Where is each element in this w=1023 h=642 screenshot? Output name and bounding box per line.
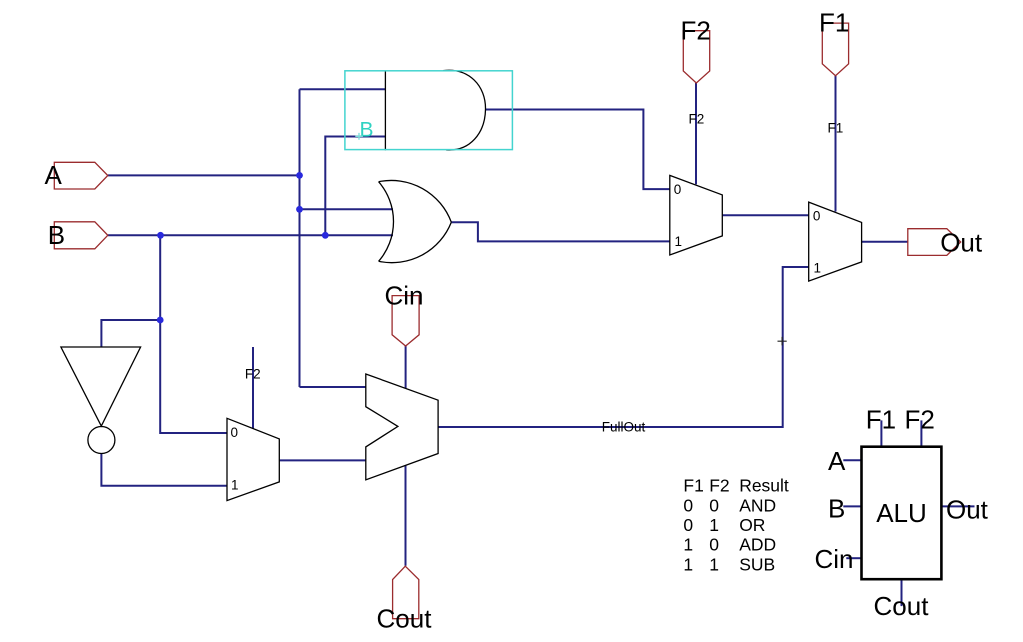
- svg-text:B: B: [828, 494, 845, 524]
- svg-text:A: A: [828, 446, 846, 476]
- NOT gate U3: [61, 347, 141, 426]
- wire adder carry to Cout pin: [405, 465, 407, 565]
- wire branch to NOT gate input: [101, 320, 160, 347]
- svg-text:F1: F1: [828, 121, 844, 136]
- svg-text:F1: F1: [819, 8, 849, 38]
- wire ALU label A stub: [843, 459, 861, 461]
- OR gate U2: [379, 180, 452, 262]
- svg-text:0: 0: [709, 495, 719, 515]
- svg-text:F1: F1: [683, 476, 703, 496]
- svg-text:0: 0: [813, 208, 821, 223]
- svg-text:F2: F2: [681, 15, 711, 45]
- input pin A: [54, 162, 108, 189]
- svg-text:F1: F1: [866, 405, 896, 435]
- svg-text:0: 0: [683, 515, 693, 535]
- svg-text:F2: F2: [905, 405, 935, 435]
- wire ALU label F1 stub: [880, 420, 882, 447]
- wire adder FullOut to MUX2 input 1: [438, 267, 809, 427]
- output pin Cout: [393, 566, 419, 619]
- svg-text:1: 1: [709, 515, 719, 535]
- wire A bus to adder input A: [300, 386, 366, 388]
- anchor cross on FullOut net: [778, 337, 787, 346]
- svg-text:ALU: ALU: [876, 498, 927, 528]
- svg-text:1: 1: [814, 261, 822, 276]
- multiplexer MUX2: [809, 202, 862, 281]
- junction NOT branch: [157, 317, 164, 324]
- wire MUX2 output to Out pin: [862, 241, 908, 243]
- svg-text:Cout: Cout: [377, 604, 433, 634]
- svg-text:Out: Out: [946, 495, 989, 525]
- svg-text:1: 1: [675, 234, 683, 249]
- wire ALU label Out stub: [941, 505, 974, 507]
- svg-text:F2: F2: [689, 112, 705, 127]
- wire ALU label B stub: [843, 505, 861, 507]
- wire A to AND gate top input: [300, 88, 386, 90]
- svg-text:Result: Result: [739, 476, 789, 496]
- junction B wire to AND branch: [322, 232, 329, 239]
- svg-text:ADD: ADD: [739, 535, 776, 555]
- ALU block symbol: [862, 447, 942, 580]
- wire MUX3 output to adder input B: [279, 459, 366, 461]
- input pin B: [54, 222, 108, 249]
- NOT gate bubble: [88, 427, 115, 454]
- wire F2 stub to MUX3 select: [252, 347, 254, 429]
- wire ALU label Cin stub: [846, 557, 861, 559]
- wire NOT gate output to MUX3 input 1: [101, 454, 227, 486]
- wire A pin to vertical bus: [108, 174, 300, 176]
- svg-text:1: 1: [683, 535, 693, 555]
- svg-text:SUB: SUB: [739, 554, 775, 574]
- wire Cin pin to adder: [405, 346, 407, 388]
- svg-text:1: 1: [231, 477, 239, 492]
- multiplexer MUX3: [227, 418, 279, 500]
- multiplexer MUX1: [670, 175, 723, 255]
- svg-text:AND: AND: [739, 495, 776, 515]
- junction on A wire: [296, 172, 303, 179]
- junction B wire to lower branch: [157, 232, 164, 239]
- svg-text:Out: Out: [940, 228, 983, 258]
- svg-text:0: 0: [709, 535, 719, 555]
- wire B branch down to NOT and MUX3: [160, 235, 227, 433]
- input pin Cin: [392, 296, 419, 346]
- AND gate U1: [385, 70, 485, 150]
- svg-text:0: 0: [674, 182, 682, 197]
- wire ALU label F2 stub: [920, 420, 922, 447]
- adder U4: [366, 374, 438, 480]
- svg-text:1: 1: [683, 554, 693, 574]
- selection box around AND gate: [345, 71, 513, 150]
- output pin Out: [908, 229, 961, 256]
- svg-text:F2: F2: [245, 367, 261, 382]
- wire AND output to MUX1 input 0: [486, 110, 670, 190]
- wire B branch up to AND gate bottom input: [325, 137, 385, 236]
- svg-text:FullOut: FullOut: [602, 419, 646, 434]
- svg-text:B: B: [48, 220, 65, 250]
- wire B pin to OR gate bottom input: [108, 234, 393, 236]
- wire A to OR gate top input: [300, 208, 394, 210]
- svg-text:0: 0: [231, 425, 239, 440]
- svg-text:A: A: [45, 160, 63, 190]
- junction A bus to OR input: [296, 206, 303, 213]
- svg-text:OR: OR: [739, 515, 765, 535]
- wire vertical A bus: [299, 89, 301, 387]
- wire F2 pin to MUX1 select: [695, 83, 697, 184]
- svg-text:F2: F2: [709, 476, 729, 496]
- anchor cross of selected label: [355, 133, 363, 140]
- wire MUX1 output to MUX2 input 0: [722, 214, 808, 216]
- svg-text:Cin: Cin: [815, 544, 854, 574]
- wire F1 pin to MUX2 select: [835, 76, 837, 212]
- input pin F2: [683, 31, 709, 83]
- svg-text:Cout: Cout: [874, 591, 930, 621]
- svg-text:0: 0: [683, 495, 693, 515]
- svg-text:B: B: [360, 118, 374, 141]
- wire OR output to MUX1 input 1: [451, 222, 670, 241]
- input pin F1: [822, 23, 848, 76]
- wire ALU label Cout stub: [901, 579, 903, 606]
- svg-text:1: 1: [709, 554, 719, 574]
- svg-text:Cin: Cin: [385, 280, 424, 310]
